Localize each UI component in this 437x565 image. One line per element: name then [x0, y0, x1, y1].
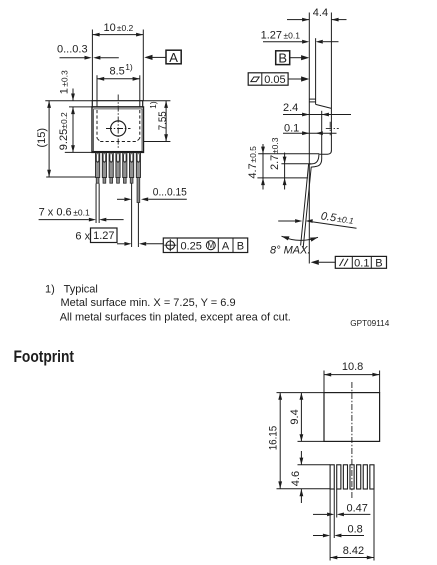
svg-text:A: A [169, 50, 178, 65]
svg-text:8° MAX.: 8° MAX. [270, 245, 310, 257]
dim 2.7±0.3 [269, 137, 287, 189]
svg-text:GPT09114: GPT09114 [350, 318, 389, 328]
parallelism tolerance frame [311, 256, 387, 269]
dim 6 x 1.27 [75, 228, 163, 246]
svg-text:4.4: 4.4 [313, 7, 328, 19]
8° max angle arc [270, 236, 318, 256]
body top chamfer [316, 104, 332, 108]
dim 10±0.2 line [92, 30, 143, 101]
dim 16.15 [267, 393, 330, 489]
svg-text:10: 10 [104, 22, 116, 34]
datum A box and leader [144, 50, 181, 65]
lead pad 3 [343, 465, 347, 489]
lead front line (upper) [321, 111, 323, 155]
extension line lead bend [281, 163, 311, 165]
dim 8.42 [330, 545, 374, 559]
svg-text:1): 1) [148, 101, 158, 109]
lead pad 4 [350, 465, 354, 489]
svg-text:0...0.15: 0...0.15 [153, 186, 187, 198]
dim 9.25±0.2 [58, 107, 92, 152]
lead pad 7 [370, 465, 374, 489]
hole axis center cross (side view) [326, 127, 339, 129]
svg-text:8.5: 8.5 [110, 65, 125, 77]
extension line body bottom left [258, 153, 319, 155]
position tolerance frame [163, 238, 247, 253]
lead pad 6 [363, 465, 367, 489]
svg-text:(15): (15) [36, 128, 48, 148]
svg-text:±0.3: ±0.3 [60, 70, 70, 87]
dim 0...0.15 [117, 184, 187, 248]
back face vertical line (datum B face) [308, 13, 310, 264]
svg-text:All metal surfaces tin plated,: All metal surfaces tin plated, except ar… [60, 311, 291, 323]
body bottom (side view) [319, 151, 331, 155]
dim 9.4 [289, 393, 324, 442]
lead 7 (front view) [136, 153, 140, 203]
dim 0...0.3 [57, 44, 119, 60]
tab top extension line left [45, 100, 92, 102]
svg-text:7 x 0.6: 7 x 0.6 [39, 207, 72, 219]
lead bend front face (side view) [303, 154, 322, 248]
dim 4.4 [287, 7, 347, 21]
lead 5 (front view) [123, 153, 127, 183]
lead 6 (front view) [130, 153, 134, 183]
dim 1.27±0.1 [261, 29, 339, 43]
lead pad 1 [330, 465, 334, 489]
lead pad 2 [337, 465, 341, 489]
tab (front view) [92, 101, 142, 107]
svg-text:0.5: 0.5 [320, 210, 338, 224]
svg-text:0.1: 0.1 [354, 257, 369, 269]
lead 1 (front view) [96, 153, 100, 183]
svg-text:±0.5: ±0.5 [248, 146, 258, 163]
svg-text:4.7: 4.7 [247, 163, 259, 178]
body front face + extension [330, 13, 332, 152]
svg-text:8.42: 8.42 [343, 545, 364, 557]
svg-text:±0.2: ±0.2 [59, 112, 69, 129]
svg-text:Footprint: Footprint [14, 347, 75, 366]
dim 4.6 [290, 451, 330, 503]
svg-text:0.8: 0.8 [348, 524, 363, 536]
svg-text:4.6: 4.6 [290, 471, 302, 486]
dim 8.5 1) [97, 62, 140, 107]
svg-text:±0.1: ±0.1 [284, 30, 301, 40]
lead pad 5 [357, 465, 361, 489]
dim 1±0.3 (tab height) [59, 70, 75, 101]
lead 3 (front view) [109, 153, 113, 183]
dim 10±0.2 text [104, 22, 134, 34]
lead 2 (front view) [102, 153, 106, 183]
svg-text:1): 1) [125, 62, 133, 72]
datum B box and leader [276, 50, 310, 65]
svg-text:0.1: 0.1 [284, 122, 299, 134]
svg-text:A: A [222, 240, 230, 252]
dim 0.1 [283, 122, 337, 135]
tab bottom extension line [69, 106, 92, 108]
svg-text:0.05: 0.05 [264, 74, 285, 86]
svg-text:M: M [207, 241, 214, 250]
tab pad [324, 393, 380, 442]
svg-text:2.4: 2.4 [283, 102, 298, 114]
dim 0.47 [313, 503, 370, 517]
dashed metal surface outline [97, 110, 140, 142]
svg-text:0.25: 0.25 [181, 240, 202, 252]
extension line lead kink end [257, 177, 308, 179]
body (front view) [92, 107, 144, 152]
svg-text:1.27: 1.27 [261, 29, 282, 41]
svg-text:9.25: 9.25 [58, 129, 70, 150]
lead bend back face (side view) [301, 154, 319, 245]
svg-text:2.7: 2.7 [269, 155, 281, 170]
dim 4.7±0.5 [247, 144, 265, 190]
svg-text:6 x: 6 x [75, 231, 90, 243]
svg-text:9.4: 9.4 [289, 409, 301, 424]
lead 4 (front view) [116, 153, 120, 183]
svg-text:Typical: Typical [64, 284, 98, 296]
tab bottom step lines [309, 98, 315, 100]
svg-text:±0.1: ±0.1 [73, 208, 90, 218]
dim 2.4 [283, 102, 351, 117]
dim (15) [36, 101, 96, 177]
svg-text:1.27: 1.27 [93, 230, 114, 242]
tab front face [315, 38, 317, 104]
dim 0.8 [313, 524, 364, 538]
svg-text:0.47: 0.47 [347, 503, 368, 515]
centerline horizontal [106, 128, 131, 130]
dim 0.5±0.1 [278, 210, 356, 228]
svg-text:B: B [237, 240, 244, 252]
tab top extension line right [143, 100, 171, 102]
footprint centerline [351, 382, 353, 498]
svg-text:16.15: 16.15 [267, 426, 279, 451]
flatness tolerance frame [248, 73, 309, 86]
svg-text:Metal surface min. X = 7.25, Y: Metal surface min. X = 7.25, Y = 6.9 [61, 297, 236, 309]
dim 7 x 0.6±0.1 [39, 184, 124, 224]
svg-text:10.8: 10.8 [342, 361, 363, 373]
svg-text:7.55: 7.55 [157, 111, 169, 130]
svg-text:±0.2: ±0.2 [117, 23, 134, 33]
centerline vertical [117, 95, 119, 149]
svg-text:±0.3: ±0.3 [270, 137, 280, 154]
dim 7.55 1) [144, 101, 171, 142]
pad edge extension lines [329, 489, 331, 561]
svg-text:1: 1 [59, 88, 71, 94]
dim 10.8 [324, 361, 380, 392]
svg-text:0...0.3: 0...0.3 [57, 44, 88, 56]
svg-text:B: B [375, 257, 382, 269]
svg-text:1): 1) [45, 284, 55, 296]
svg-text:B: B [278, 50, 287, 65]
leads (front view) [96, 153, 141, 203]
mounting hole [111, 121, 126, 136]
